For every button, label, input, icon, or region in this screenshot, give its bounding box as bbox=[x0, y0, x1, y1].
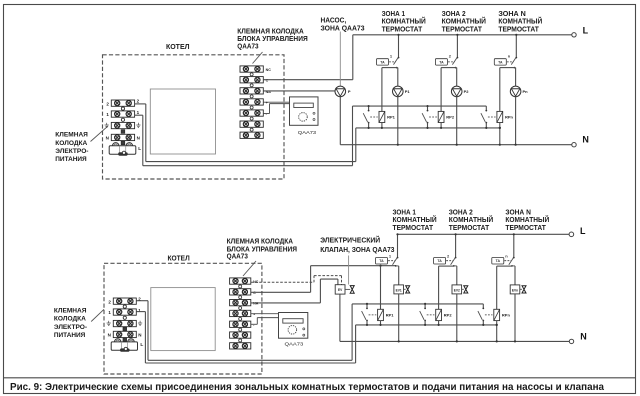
svg-text:QAA73: QAA73 bbox=[285, 342, 304, 348]
svg-text:Рис. 9: Электрические схемы пр: Рис. 9: Электрические схемы присоединени… bbox=[10, 382, 605, 393]
svg-text:+: + bbox=[253, 313, 255, 317]
svg-text:N: N bbox=[137, 136, 140, 141]
svg-text:Pn: Pn bbox=[523, 89, 529, 94]
svg-text:RP1: RP1 bbox=[387, 115, 396, 120]
svg-text:EV1: EV1 bbox=[396, 288, 402, 292]
svg-text:TA: TA bbox=[379, 259, 384, 263]
svg-text:L: L bbox=[138, 146, 141, 152]
svg-text:ТЕРМОСТАТ: ТЕРМОСТАТ bbox=[498, 25, 539, 34]
svg-text:N: N bbox=[580, 331, 587, 341]
svg-text:КОЛОДКА: КОЛОДКА bbox=[54, 316, 86, 323]
svg-text:RP2: RP2 bbox=[446, 115, 455, 120]
svg-text:ТЕРМОСТАТ: ТЕРМОСТАТ bbox=[382, 25, 423, 34]
svg-text:КЛЕМНАЯ: КЛЕМНАЯ bbox=[55, 132, 88, 139]
svg-text:P: P bbox=[348, 89, 351, 94]
svg-text:N: N bbox=[108, 333, 111, 338]
svg-text:КЛАПАН, ЗОНА QAA73: КЛАПАН, ЗОНА QAA73 bbox=[320, 245, 394, 254]
svg-text:QAA73: QAA73 bbox=[227, 252, 248, 261]
svg-text:N: N bbox=[106, 136, 109, 141]
svg-text:TA: TA bbox=[498, 60, 503, 64]
svg-text:NA: NA bbox=[253, 302, 259, 306]
svg-text:N: N bbox=[582, 134, 589, 144]
svg-text:TA: TA bbox=[437, 259, 442, 263]
svg-text:L: L bbox=[583, 26, 589, 36]
svg-text:L: L bbox=[580, 226, 586, 236]
svg-text:ЭЛЕКТРО-: ЭЛЕКТРО- bbox=[55, 148, 88, 155]
svg-text:TA: TA bbox=[496, 259, 501, 263]
svg-text:TA: TA bbox=[380, 60, 385, 64]
svg-text:ПИТАНИЯ: ПИТАНИЯ bbox=[55, 156, 87, 163]
svg-text:ПИТАНИЯ: ПИТАНИЯ bbox=[54, 332, 86, 339]
svg-text:КОЛОДКА: КОЛОДКА bbox=[55, 140, 87, 147]
svg-text:КЛЕМНАЯ: КЛЕМНАЯ bbox=[54, 307, 87, 314]
svg-text:RPn: RPn bbox=[505, 115, 514, 120]
svg-text:ТЕРМОСТАТ: ТЕРМОСТАТ bbox=[505, 223, 546, 232]
svg-text:ТЕРМОСТАТ: ТЕРМОСТАТ bbox=[449, 223, 490, 232]
svg-text:EVn: EVn bbox=[512, 288, 518, 292]
svg-text:ТЕРМОСТАТ: ТЕРМОСТАТ bbox=[442, 25, 483, 34]
svg-text:QAA73: QAA73 bbox=[237, 42, 258, 51]
svg-text:ЗОНА QAA73: ЗОНА QAA73 bbox=[321, 24, 365, 33]
svg-text:NC: NC bbox=[266, 68, 272, 72]
svg-text:P2: P2 bbox=[464, 89, 470, 94]
svg-text:ТЕРМОСТАТ: ТЕРМОСТАТ bbox=[393, 223, 434, 232]
svg-text:RP2: RP2 bbox=[444, 313, 453, 318]
svg-text:N: N bbox=[138, 333, 141, 338]
svg-text:ЭЛЕКТРИЧЕСКИЙ: ЭЛЕКТРИЧЕСКИЙ bbox=[320, 236, 380, 245]
svg-text:EV2: EV2 bbox=[454, 288, 460, 292]
svg-text:P1: P1 bbox=[405, 89, 411, 94]
svg-text:RPn: RPn bbox=[502, 313, 511, 318]
svg-text:ЭЛЕКТРО-: ЭЛЕКТРО- bbox=[54, 324, 87, 331]
svg-text:КОТЕЛ: КОТЕЛ bbox=[168, 254, 190, 263]
svg-text:QAA73: QAA73 bbox=[298, 130, 317, 136]
svg-text:L: L bbox=[140, 342, 143, 348]
svg-text:КОТЕЛ: КОТЕЛ bbox=[166, 42, 190, 51]
svg-text:TA: TA bbox=[439, 60, 444, 64]
svg-text:RP1: RP1 bbox=[386, 313, 395, 318]
